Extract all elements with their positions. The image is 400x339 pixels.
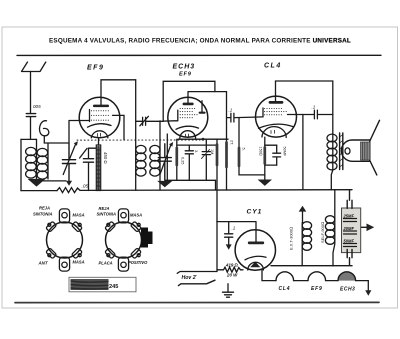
- socket 1 corner lugs: [46, 221, 82, 258]
- svg-text:50MF: 50MF: [344, 238, 355, 243]
- cathode triangle CY1: [250, 262, 260, 268]
- heater bump ECH3: [338, 272, 356, 281]
- wire mid horizontal: [165, 179, 216, 181]
- electrolytic capacitor block: [342, 208, 361, 253]
- svg-text:25MF: 25MF: [343, 213, 355, 218]
- wire AC feed vertical: [216, 222, 218, 272]
- wire grid return L: [44, 121, 89, 144]
- AVC dashed line: [77, 139, 200, 141]
- anode bar CY1: [248, 242, 264, 245]
- resistor vertical (AVC divider): [216, 139, 218, 221]
- grid dots CL4: [264, 108, 287, 115]
- wire AVC solid segment: [178, 138, 228, 140]
- heater arc EF9: [91, 131, 108, 138]
- heater bump CL4: [276, 272, 294, 281]
- resistor CL4 cathode: [265, 145, 277, 165]
- svg-text:CL4: CL4: [264, 63, 282, 70]
- coupling coil: [39, 121, 48, 136]
- svg-text:MASA: MASA: [73, 260, 85, 265]
- wire EF9 anode top: [101, 80, 136, 105]
- svg-text:0,25: 0,25: [181, 157, 185, 164]
- heater arc CY1: [248, 262, 264, 270]
- wire ECH3 anode line: [188, 92, 227, 103]
- wire antenna lead: [30, 72, 32, 114]
- wire cap to junction: [30, 117, 32, 140]
- wire EF9 cathode: [98, 138, 100, 145]
- bottom border: [15, 301, 379, 303]
- capacitor CL4 cathode: [273, 145, 281, 165]
- grid bracket EF9: [89, 110, 91, 122]
- svg-text:2T.: 2T.: [230, 140, 234, 145]
- wire cap top link: [89, 147, 99, 149]
- wire mid top horizontal: [177, 144, 217, 146]
- ground (CL4 cathode): [258, 180, 272, 186]
- socket 1 bottom lug: [59, 257, 69, 271]
- transformer core: [340, 133, 343, 170]
- grid dots ECH3: [180, 108, 198, 118]
- ground (antenna coil): [28, 179, 46, 187]
- capacitor B: [202, 150, 210, 159]
- heater chain: [262, 270, 368, 281]
- wire ECH3 cathode: [166, 134, 168, 180]
- variable capacitor CV1: [62, 143, 75, 181]
- arrow B+ out: [362, 226, 367, 228]
- speaker magnet hatch: [361, 142, 370, 160]
- grid dots EF9: [91, 110, 113, 120]
- socket 1 top lug: [59, 209, 69, 223]
- anode bar EF9: [93, 105, 109, 108]
- svg-text:1M.: 1M.: [210, 149, 214, 155]
- cathode arc EF9: [88, 124, 112, 127]
- wire stub: [215, 180, 217, 190]
- coupling capacitor CL4 grid: [227, 113, 264, 122]
- arrow CV1: [63, 144, 76, 175]
- socket 2 side contact: [141, 228, 148, 248]
- svg-text:450 Ω: 450 Ω: [103, 152, 108, 164]
- speaker hole: [345, 148, 350, 154]
- wire AC line: [177, 272, 217, 274]
- switch: [178, 280, 215, 285]
- tube CL4: [256, 96, 297, 137]
- grid bracket CL4: [262, 108, 264, 117]
- svg-text:CL4: CL4: [279, 286, 291, 292]
- trimmer capacitor interstage: [136, 117, 164, 125]
- wire CY1 anode feed: [217, 222, 256, 242]
- svg-text:PLACA: PLACA: [99, 260, 113, 265]
- svg-text:005: 005: [33, 104, 41, 109]
- wire CL4 screen vertical: [302, 115, 304, 190]
- resistor ECH3 cathode: [176, 139, 178, 180]
- resistor plate load ECH3: [226, 92, 228, 190]
- socket 2 top lug: [118, 209, 128, 223]
- svg-text:SINTONIA: SINTONIA: [33, 211, 53, 216]
- capacitor antenna 005: [26, 114, 35, 117]
- stamp box 245: [69, 277, 136, 292]
- cathode arc CL4: [259, 124, 294, 128]
- trimmer slash: [80, 148, 87, 158]
- capacitor cathode bypass EF9: [83, 148, 93, 190]
- wire anode long vertical: [135, 80, 137, 190]
- svg-text:5.: 5.: [242, 148, 246, 151]
- antenna coil primary: [36, 139, 38, 178]
- anode bar CL4: [269, 101, 284, 104]
- tube CY1: [235, 230, 275, 270]
- svg-text:SINTONIA: SINTONIA: [97, 211, 117, 216]
- svg-text:MASA: MASA: [130, 213, 142, 218]
- field coil EXT 3000: [299, 206, 307, 212]
- resistor R 450 ohm: [96, 145, 100, 191]
- svg-text:245: 245: [109, 284, 118, 290]
- wire switch to ground: [227, 284, 229, 292]
- svg-text:E.X.T-3000Ω: E.X.T-3000Ω: [289, 227, 294, 250]
- capacitor A: [185, 145, 193, 180]
- socket 2: [106, 222, 142, 258]
- svg-text:SELF-900Ω: SELF-900Ω: [320, 222, 325, 243]
- svg-text:20 W: 20 W: [226, 272, 238, 277]
- svg-text:.1: .1: [232, 226, 236, 231]
- cathode arc ECH3: [176, 126, 199, 129]
- heater bump EF9: [308, 272, 326, 281]
- svg-text:50MF: 50MF: [283, 147, 287, 157]
- anode bar 2 ECH3: [199, 112, 206, 114]
- heater arc CL4: [262, 127, 286, 138]
- tube ECH3: [168, 97, 208, 137]
- svg-text:ANT: ANT: [38, 260, 48, 265]
- grid bracket ECH3: [163, 110, 178, 121]
- resistor grid leak CL4: [239, 118, 265, 175]
- title underline: [17, 54, 381, 56]
- tube EF9: [79, 97, 120, 138]
- resistor .05 (zigzag in rail): [57, 188, 80, 193]
- antenna: [22, 62, 46, 72]
- wire coil tail: [43, 136, 45, 143]
- anode bar ECH3: [183, 103, 194, 106]
- capacitor line filter .1: [225, 222, 233, 245]
- capacitor series bottom: [333, 249, 352, 265]
- svg-text:REJA: REJA: [99, 206, 110, 211]
- socket 2 bottom lug: [118, 257, 128, 271]
- resistor 419 ohm: [217, 267, 243, 272]
- socket 2 corner lugs: [105, 221, 141, 258]
- wire bottom rail main: [80, 189, 352, 192]
- svg-text:.05: .05: [82, 184, 89, 190]
- cathode arc CY1: [245, 256, 266, 260]
- speaker body: [341, 140, 369, 161]
- IF transformer secondary: [159, 121, 161, 190]
- capacitor series top: [347, 190, 352, 209]
- wire heater end: [367, 281, 369, 291]
- wire ground link: [41, 180, 66, 182]
- svg-text:.1: .1: [312, 105, 316, 110]
- wire EF9 grid2 right: [113, 115, 125, 140]
- svg-text:20MF: 20MF: [343, 226, 355, 231]
- ground (AC): [223, 292, 234, 297]
- svg-text:Hov 2̈: Hov 2̈: [182, 275, 198, 281]
- svg-text:MASA: MASA: [73, 212, 85, 217]
- svg-text:EF9: EF9: [87, 65, 104, 72]
- wire left frame vertical: [20, 139, 22, 190]
- svg-text:REJA: REJA: [39, 205, 50, 210]
- wire ECH3 top box: [163, 81, 215, 121]
- filter choke SELF 900: [333, 190, 335, 266]
- wire CY1 cathode out: [271, 265, 333, 267]
- wire bottom rail left: [21, 190, 57, 192]
- wire junction horizontal: [21, 138, 37, 140]
- svg-text:3.: 3.: [194, 150, 198, 153]
- IF transformer primary: [136, 145, 146, 153]
- svg-text:.1: .1: [229, 108, 233, 113]
- variable capacitor CV2: [158, 144, 171, 181]
- speaker cone lines: [370, 120, 380, 175]
- wire CL4 screen right: [288, 110, 333, 119]
- node junction: [202, 138, 205, 141]
- antenna coil secondary: [47, 144, 49, 180]
- socket 1: [47, 222, 83, 258]
- svg-text:419 Ω: 419 Ω: [225, 262, 239, 267]
- arrow CV2: [160, 144, 171, 174]
- svg-text:ECH3: ECH3: [173, 64, 196, 71]
- ground (ECH3 cathode): [157, 181, 172, 187]
- output transformer primary: [327, 134, 337, 142]
- svg-text:ECH3: ECH3: [340, 287, 355, 293]
- svg-text:ESQUEMA 4 VALVULAS, RADIO FREC: ESQUEMA 4 VALVULAS, RADIO FRECUENCIA; ON…: [49, 38, 351, 45]
- wire CL4 cathode: [264, 137, 266, 179]
- svg-text:EF9: EF9: [179, 72, 192, 78]
- svg-text:EF9: EF9: [311, 286, 323, 292]
- svg-text:CY1: CY1: [247, 209, 263, 216]
- heater arc ECH3: [180, 131, 196, 139]
- wire CL4 anode top: [276, 81, 333, 134]
- svg-text:150Ω: 150Ω: [259, 147, 263, 156]
- svg-text:POSITIVO: POSITIVO: [128, 260, 148, 265]
